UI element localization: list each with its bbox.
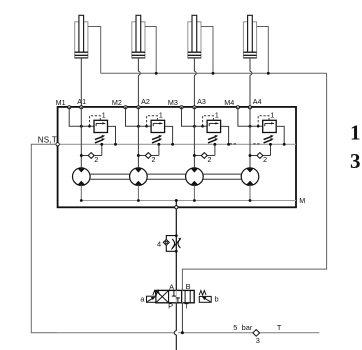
hydraulic motor 1 circle — [73, 168, 91, 186]
svg-text:M3: M3 — [168, 98, 178, 107]
pressure spec diamond 3 — [253, 330, 260, 337]
wire orifice branch (section 3) — [194, 144, 215, 155]
cylinder CYL4 piston rod — [248, 15, 253, 52]
svg-text:5: 5 — [233, 323, 237, 332]
spring a — [153, 291, 160, 296]
cylinder CYL1 piston — [75, 52, 88, 55]
orifice 2 diamond (section 2) — [145, 153, 151, 159]
cylinder CYL1 piston rod — [79, 15, 84, 52]
junction pilot / inlet (section 3) — [201, 125, 204, 128]
svg-text:M4: M4 — [224, 98, 234, 107]
wire orifice branch (section 4) — [250, 144, 271, 155]
junction orifice / A-line (section 3) — [193, 154, 196, 157]
wire M1 to relief valve inlet — [69, 107, 94, 126]
wire orifice branch (section 1) — [81, 144, 102, 155]
motor 4 flow triangles — [246, 168, 254, 185]
port node M4 — [236, 106, 239, 109]
valve position b parallel paths — [185, 290, 190, 302]
relief valve 1 body (section 2) — [151, 120, 165, 132]
port node M3 — [180, 106, 183, 109]
port node A1 — [80, 106, 83, 109]
wire CYL4 rod-side port to rail — [257, 27, 269, 74]
cylinder CYL2 barrel — [132, 22, 145, 58]
wire motor 4 drain to bus — [249, 185, 251, 200]
port node block bottom — [175, 206, 178, 209]
wire motor 3 drain to bus — [193, 185, 195, 200]
cylinder CYL3 piston — [188, 52, 201, 55]
check valve diamond of 4 — [163, 240, 169, 246]
wire T line below valve — [181, 303, 183, 333]
pilot line dashed (section 2) — [147, 116, 158, 126]
junction dots on rod rail — [155, 72, 270, 75]
wire CYL3 piston-side drop to A3 — [194, 58, 196, 107]
svg-text:1: 1 — [215, 110, 219, 119]
svg-text:T: T — [277, 323, 282, 332]
svg-text:a: a — [140, 294, 144, 303]
wire A4 line down to motor — [249, 107, 251, 168]
wire A3 line down to motor — [193, 107, 195, 168]
internal drain bus — [81, 200, 296, 202]
svg-text:M2: M2 — [112, 98, 122, 107]
junction orifice / A-line (section 2) — [137, 154, 140, 157]
svg-text:3: 3 — [256, 336, 260, 345]
wire CYL2 rod-side port to rail — [145, 27, 156, 74]
wire relief outlet to tank rail (section 3) — [221, 126, 229, 144]
valve position a crossed arrows — [157, 291, 168, 302]
svg-text:A2: A2 — [141, 97, 150, 106]
relief valve 1 body (section 1) — [94, 120, 108, 132]
cylinder CYL3 barrel — [188, 22, 201, 58]
wire CYL2 piston-side drop to A2 — [138, 58, 140, 107]
port node M1 — [68, 106, 71, 109]
orifice 2 diamond (section 4) — [257, 153, 263, 159]
port node A2 — [137, 106, 140, 109]
valve center blocked ports — [172, 290, 180, 302]
svg-text:A3: A3 — [197, 97, 206, 106]
hydraulic motor 2 circle — [130, 168, 148, 186]
junction A3 line / inlet — [193, 125, 196, 128]
svg-text:2: 2 — [263, 155, 267, 164]
port node A3 — [193, 106, 196, 109]
manifold block outline — [58, 107, 296, 207]
wire M4 to relief valve inlet — [238, 107, 263, 126]
junction A1 line / inlet — [80, 125, 83, 128]
wire relief outlet to tank rail (section 1) — [108, 126, 116, 144]
junction pilot / inlet (section 2) — [145, 125, 148, 128]
relief valve 1 body (section 3) — [207, 120, 221, 132]
svg-text:A4: A4 — [253, 97, 262, 106]
svg-text:M: M — [299, 196, 305, 205]
cylinder CYL2 piston — [132, 52, 145, 55]
wire A1 line down to motor — [80, 107, 82, 168]
spring b — [199, 291, 206, 296]
wire M3 to relief valve inlet — [182, 107, 208, 126]
cylinder CYL1 barrel — [75, 22, 88, 58]
junction pilot / inlet (section 1) — [88, 125, 91, 128]
svg-text:NS,T: NS,T — [38, 135, 57, 144]
wire NS,T to left pipe — [31, 144, 57, 332]
solenoid a box — [147, 296, 156, 302]
svg-text:2: 2 — [151, 155, 155, 164]
junction A2 line / inlet — [137, 125, 140, 128]
svg-text:M1: M1 — [56, 98, 66, 107]
port node A4 — [248, 106, 251, 109]
motor 3 flow triangles — [191, 168, 199, 185]
flow control 4 bypass loop — [166, 236, 176, 252]
svg-text:2: 2 — [94, 155, 98, 164]
svg-text:A1: A1 — [77, 97, 86, 106]
wire bottom tank line T — [58, 332, 175, 334]
motor 1 flow triangles — [77, 168, 85, 185]
relief valve 1 internal arrow (section 4) — [265, 122, 274, 126]
svg-text:1: 1 — [350, 121, 361, 145]
cylinder CYL4 barrel — [243, 22, 256, 58]
svg-text:1: 1 — [102, 110, 106, 119]
wire CYL1 piston-side drop to A1 — [80, 58, 82, 107]
wire CYL3 rod-side port to rail — [201, 27, 213, 74]
svg-text:3: 3 — [350, 149, 361, 173]
junction pilot / inlet (section 4) — [257, 125, 260, 128]
svg-text:4: 4 — [157, 239, 161, 248]
svg-text:b: b — [215, 295, 219, 304]
pilot line dashed (section 1) — [90, 116, 101, 126]
relief valve 1 internal arrow (section 2) — [153, 122, 162, 126]
wire CYL1 rod-side port to rail — [88, 27, 101, 74]
wire relief outlet to tank rail (section 4) — [276, 126, 284, 144]
svg-text:T: T — [184, 301, 189, 310]
svg-text:1: 1 — [159, 110, 163, 119]
junction bus to outlet — [175, 199, 178, 202]
wire motor 2 drain to bus — [137, 185, 139, 200]
wire main line block to valve A — [175, 209, 177, 291]
pilot line dashed (section 4) — [258, 116, 269, 126]
motor 2 flow triangles — [135, 168, 143, 185]
cylinder CYL2 piston rod — [136, 15, 141, 52]
wire CYL4 piston-side drop to A4 — [250, 58, 252, 107]
valve center position pass lines — [176, 290, 182, 302]
hydraulic motor 4 circle — [241, 168, 259, 186]
wire relief outlet to tank rail (section 2) — [165, 126, 173, 144]
wire bus outlet down — [175, 201, 177, 208]
adjustment arrows (section 2) — [152, 135, 162, 143]
pilot line dashed (section 3) — [203, 116, 214, 126]
throttle arcs of 4 — [172, 239, 180, 248]
junction T line / tank line — [181, 331, 184, 334]
port node M2 — [124, 106, 127, 109]
directional valve W body — [156, 290, 194, 302]
adjust arrow of 4 — [171, 238, 181, 250]
svg-text:A: A — [169, 282, 174, 291]
wire orifice branch (section 2) — [138, 144, 159, 155]
wire M2 to relief valve inlet — [126, 107, 152, 126]
svg-text:2: 2 — [207, 155, 211, 164]
junction orifice / A-line (section 4) — [249, 154, 252, 157]
svg-text:bar: bar — [242, 323, 253, 332]
orifice 2 diamond (section 3) — [201, 153, 207, 159]
wire right return rail — [182, 73, 326, 290]
wire A2 line down to motor — [137, 107, 139, 168]
adjustment arrows (section 3) — [208, 135, 218, 143]
orifice 2 diamond (section 1) — [88, 153, 94, 159]
svg-text:1: 1 — [270, 110, 274, 119]
junction orifice / A-line (section 1) — [80, 154, 83, 157]
cylinder CYL3 piston rod — [192, 15, 197, 52]
svg-text:P: P — [168, 301, 173, 310]
relief valve 1 body (section 4) — [263, 120, 277, 132]
junction A4 line / inlet — [249, 125, 252, 128]
port node NS,T — [56, 143, 59, 146]
relief valve 1 internal arrow (section 1) — [96, 122, 105, 126]
internal tank rail NS,T — [58, 143, 296, 145]
dashed drain segments on rail — [230, 143, 238, 145]
wire P line below valve — [174, 303, 176, 350]
motor shaft couplings — [90, 174, 241, 179]
wire motor 1 drain to bus — [80, 185, 82, 200]
adjustment arrows (section 4) — [264, 135, 274, 143]
cylinder CYL4 piston — [243, 52, 256, 55]
relief valve 1 internal arrow (section 3) — [209, 122, 218, 126]
svg-text:B: B — [186, 282, 191, 291]
solenoid b box — [199, 296, 211, 302]
adjustment arrows (section 1) — [95, 135, 105, 143]
wire rod-side common rail — [101, 72, 327, 74]
hydraulic motor 3 circle — [186, 168, 204, 186]
